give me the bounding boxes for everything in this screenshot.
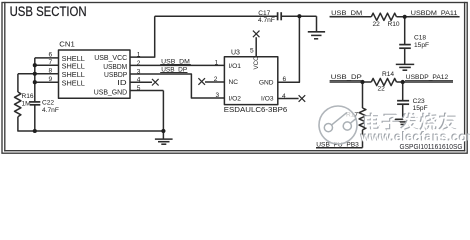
svg-text:1M: 1M	[22, 101, 31, 108]
resistor R17	[359, 108, 366, 130]
wire ground rail bottom	[35, 130, 164, 132]
junction CN1 shell pin8	[33, 72, 37, 76]
svg-text:8: 8	[49, 68, 53, 75]
svg-text:USBDM: USBDM	[103, 64, 127, 71]
svg-text:USB_GND: USB_GND	[94, 90, 128, 97]
wire CN1 pin7 stub	[35, 64, 59, 66]
svg-text:USB SECTION: USB SECTION	[10, 4, 87, 19]
capacitor C23 bottom lead	[402, 105, 404, 120]
svg-text:6: 6	[49, 52, 53, 59]
svg-text:2: 2	[137, 60, 141, 67]
wire CN1 pin9 stub	[35, 81, 59, 83]
junction USB_DP R17 node	[360, 80, 364, 84]
capacitor C17 plates	[277, 12, 279, 20]
wire CN1 pin1 stub	[130, 16, 155, 57]
wire R10 to PA11 label	[397, 16, 460, 18]
capacitor C18 top lead	[404, 17, 406, 44]
resistor R10	[371, 13, 396, 20]
svg-text:6: 6	[283, 76, 287, 83]
wire USB_PU_PB3 label underline	[316, 147, 363, 149]
wire R17 top lead	[362, 82, 364, 108]
svg-text:15pF: 15pF	[413, 105, 428, 112]
svg-text:R14: R14	[382, 71, 394, 78]
underline net label USB_DP left	[160, 72, 187, 74]
frame inner right line	[464, 3, 466, 151]
svg-text:I/O3: I/O3	[261, 95, 274, 102]
svg-text:5: 5	[250, 47, 254, 54]
capacitor C23 plates	[397, 100, 409, 102]
ground symbol G1	[155, 131, 173, 144]
svg-text:C22: C22	[42, 99, 54, 106]
svg-text:SHELL: SHELL	[62, 72, 85, 79]
svg-text:1: 1	[137, 51, 141, 58]
svg-text:VCC: VCC	[253, 56, 260, 70]
svg-text:USBDP: USBDP	[104, 72, 128, 79]
svg-text:SHELL: SHELL	[62, 56, 85, 63]
svg-text:U3: U3	[231, 50, 240, 57]
resistor R16	[15, 92, 21, 117]
svg-text:4.7nF: 4.7nF	[258, 17, 275, 24]
svg-text:SHELL: SHELL	[62, 63, 85, 70]
junction ground rail end	[161, 129, 165, 133]
no-connect X U3 pin5	[253, 31, 260, 38]
underline net label USB_DM left	[160, 63, 191, 65]
svg-text:1: 1	[215, 60, 219, 67]
junction R10 C18 node	[403, 15, 407, 19]
svg-text:3: 3	[216, 92, 220, 99]
junction CN1 shell pin9	[33, 80, 37, 84]
svg-text:I/O1: I/O1	[229, 63, 242, 70]
frame inner bottom line	[5, 150, 465, 152]
svg-text:I/O2: I/O2	[229, 95, 242, 102]
svg-text:7: 7	[49, 59, 53, 66]
wire USB_DM right segment	[330, 16, 372, 18]
svg-text:2: 2	[214, 76, 218, 83]
wire U3 pin4 stub	[278, 98, 299, 100]
ground symbol G3	[396, 64, 414, 70]
wire USB_VCC top rail	[155, 15, 278, 17]
watermark stamp circle logo	[319, 106, 357, 144]
svg-text:C17: C17	[258, 10, 270, 17]
junction C17 output node	[297, 14, 301, 18]
wire R16 bottom lead	[18, 117, 35, 131]
wire shell bus vertical	[34, 58, 36, 82]
svg-text:4: 4	[282, 93, 286, 100]
wire R17 bottom lead	[362, 130, 364, 148]
no-connect X U3 pin2	[198, 78, 205, 85]
wire R16 branch horizontal	[18, 73, 35, 75]
svg-text:22: 22	[378, 86, 386, 93]
capacitor C23 top lead	[402, 82, 404, 101]
capacitor C18 plates	[399, 44, 411, 46]
wire U3 GND riser	[278, 16, 300, 82]
svg-text:GND: GND	[259, 79, 274, 86]
wire CN1 pin4 stub	[130, 81, 152, 83]
no-connect X U3 pin4	[299, 95, 306, 102]
frame outer border	[2, 3, 467, 154]
svg-text:NC: NC	[229, 79, 239, 86]
svg-text:R16: R16	[22, 93, 34, 100]
wire CN1 pin5 to ground corner	[162, 91, 164, 132]
svg-text:C23: C23	[413, 98, 425, 105]
svg-text:15pF: 15pF	[414, 42, 429, 49]
capacitor C18 bottom lead	[404, 49, 406, 65]
svg-text:5: 5	[137, 85, 141, 92]
connector CN1 body	[59, 50, 131, 98]
svg-text:4.7nF: 4.7nF	[42, 107, 59, 114]
wire USB_DP right segment	[330, 81, 372, 83]
underline net label USB_DM right	[330, 15, 363, 17]
wire R14 to PA12 label	[397, 81, 454, 83]
capacitor C22 top lead	[34, 82, 36, 101]
svg-text:ID: ID	[117, 80, 126, 87]
svg-text:3: 3	[137, 68, 141, 75]
svg-text:USB_DP: USB_DP	[331, 74, 363, 81]
junction R14 C23 node	[401, 80, 405, 84]
capacitor C22 plates	[30, 101, 41, 103]
underline net label USB_DP right	[330, 80, 362, 82]
junction C22 bottom rail	[33, 129, 37, 133]
wire R16 top lead	[17, 74, 19, 92]
svg-text:ESDAULC6-3BP6: ESDAULC6-3BP6	[224, 107, 288, 114]
wire U3 pin5 riser	[255, 37, 257, 57]
capacitor C22 bottom lead	[34, 105, 36, 131]
underline net label USBDP_PA12	[405, 80, 453, 82]
svg-text:USB_VCC: USB_VCC	[94, 55, 127, 62]
svg-text:CN1: CN1	[59, 42, 75, 49]
ground symbol G2	[308, 16, 325, 39]
svg-text:R10: R10	[388, 21, 400, 28]
ground symbol G4	[395, 119, 411, 124]
svg-text:22: 22	[373, 21, 381, 28]
svg-text:GSPGI101161610SG: GSPGI101161610SG	[400, 142, 463, 151]
svg-text:4: 4	[137, 77, 141, 84]
wire CN1 pin6 stub	[35, 57, 59, 59]
wire CN1 pin5 stub	[130, 90, 163, 92]
resistor R14	[371, 78, 396, 85]
svg-text:SHELL: SHELL	[62, 80, 85, 87]
svg-text:USBDP_PA12: USBDP_PA12	[406, 74, 449, 81]
underline net label USBDM_PA11	[410, 15, 459, 17]
junction CN1 shell pin7	[33, 63, 37, 67]
wire U3 pin2 stub	[205, 81, 224, 83]
svg-text:C18: C18	[414, 35, 426, 42]
watermark url text	[359, 130, 470, 145]
wire CN1 pin2 to U3 pin1 (USB_DM)	[130, 64, 224, 66]
ESD chip U3 body	[224, 57, 277, 105]
wire CN1 pin8 stub	[35, 73, 59, 75]
wire CN1 pin3 USB_DP	[130, 74, 224, 98]
no-connect X CN1 pin4	[152, 79, 159, 86]
wire C17 right to ground	[282, 15, 317, 17]
watermark chinese text	[362, 111, 459, 133]
svg-text:9: 9	[49, 76, 53, 83]
frame inner left line	[4, 3, 6, 151]
